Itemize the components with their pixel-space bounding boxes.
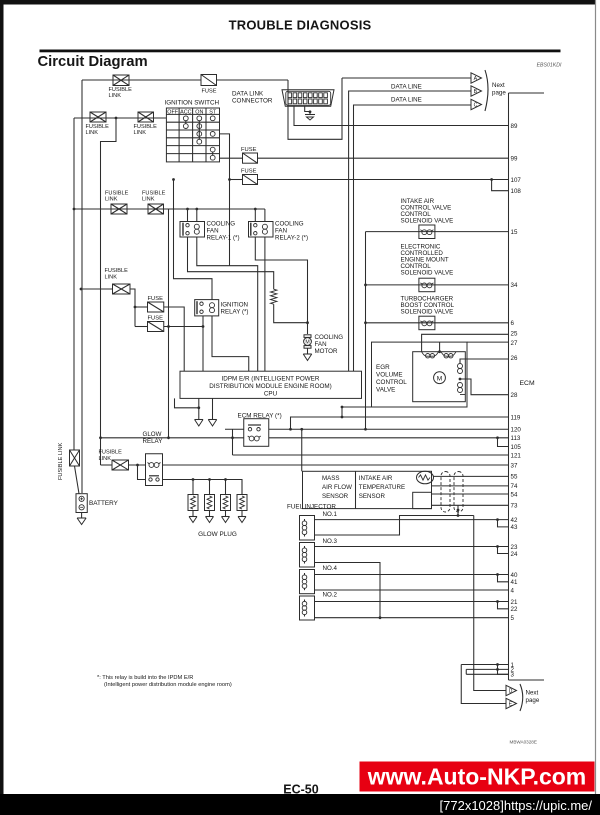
- wire fl8 bus: [101, 464, 113, 466]
- cooling fan relay-2 contact: [251, 223, 257, 236]
- svg-text:page: page: [492, 90, 506, 97]
- wire fl7 diag: [75, 466, 80, 494]
- ECM pin step pairs: [490, 178, 508, 609]
- wire motor to gnd: [307, 349, 309, 355]
- MAF divider: [355, 471, 357, 508]
- svg-text:FUSE: FUSE: [148, 316, 164, 322]
- MAF temp sensor square: [413, 492, 432, 508]
- ignition switch header: [167, 110, 217, 116]
- wire left vert x74: [73, 118, 75, 450]
- fusible link FL7 vertical: [70, 450, 80, 466]
- ignition relay contact: [197, 301, 203, 314]
- svg-text:COOLING: COOLING: [207, 221, 236, 228]
- ignition relay coil: [210, 303, 215, 313]
- svg-text:NO.1: NO.1: [323, 511, 338, 518]
- svg-text:BATTERY: BATTERY: [89, 500, 119, 507]
- fusible link FL6: [113, 284, 131, 294]
- svg-text:FUEL INJECTOR: FUEL INJECTOR: [287, 504, 336, 511]
- svg-text:55: 55: [511, 474, 518, 481]
- junction fl6 fuse4: [134, 306, 137, 309]
- ground glow plug arrows: [189, 517, 246, 523]
- fusible link FL4: [111, 204, 127, 214]
- wire jog x116 to x100: [101, 118, 117, 465]
- wire ecm relay contact line: [225, 428, 509, 430]
- svg-text:28: 28: [511, 392, 518, 399]
- glow relay coil: [148, 463, 161, 468]
- label NO.3: [323, 538, 338, 545]
- label turbo solenoid: [401, 295, 455, 315]
- data line 1: [342, 77, 471, 79]
- fuse F4: [148, 302, 164, 312]
- label FUEL INJECTOR: [287, 504, 336, 511]
- svg-text:LINK: LINK: [142, 197, 155, 203]
- battery box: [76, 494, 87, 513]
- svg-text:SOLENOID VALVE: SOLENOID VALVE: [401, 308, 454, 315]
- svg-text:25: 25: [511, 331, 518, 338]
- svg-text:FUSIBLE: FUSIBLE: [99, 450, 123, 456]
- svg-text:LINK: LINK: [105, 197, 118, 203]
- junction fuse5 v1: [167, 325, 170, 328]
- label GLOW RELAY: [143, 431, 163, 445]
- label FL1: [109, 87, 133, 99]
- svg-text:MASS: MASS: [322, 475, 340, 482]
- svg-text:NO.3: NO.3: [323, 538, 338, 545]
- wire triangle2 feed: [461, 665, 506, 704]
- svg-text:IDPM E/R (INTELLIGENT POWER: IDPM E/R (INTELLIGENT POWER: [222, 376, 320, 383]
- label MASS AIR FLOW SENSOR: [322, 475, 352, 500]
- wire cfr2 contact out: [255, 237, 307, 334]
- junction row2: [115, 117, 118, 120]
- svg-text:6: 6: [511, 320, 515, 327]
- bottom black bar: [0, 795, 600, 815]
- svg-text:34: 34: [511, 282, 518, 289]
- EGR motor box: [413, 352, 466, 402]
- next page arrow C: [471, 99, 482, 109]
- fusible link FL8: [112, 460, 129, 470]
- svg-text:Next: Next: [526, 690, 539, 697]
- wire F3 to ECM107: [258, 179, 509, 181]
- label NO.1: [323, 511, 338, 518]
- wire fuse5 out: [164, 326, 203, 328]
- junction shield bus: [457, 514, 460, 517]
- wire pin26: [460, 359, 509, 363]
- junction glow: [136, 464, 139, 467]
- next page arrow D: [506, 685, 517, 695]
- svg-text:ON: ON: [195, 110, 203, 116]
- wire idpm drop2: [212, 398, 214, 419]
- wire sol3: [366, 322, 509, 324]
- svg-text:VOLUME: VOLUME: [376, 372, 403, 379]
- next page arrow E: [506, 698, 517, 708]
- fuse F5: [148, 322, 164, 332]
- wire F2 to ECM99: [258, 157, 509, 159]
- label engine mount solenoid: [401, 244, 454, 277]
- svg-text:ECM: ECM: [520, 380, 535, 387]
- label FL2: [86, 124, 110, 136]
- svg-text:107: 107: [511, 177, 522, 184]
- junction coil v1: [167, 436, 170, 439]
- cooling fan relay-1 box: [180, 222, 205, 238]
- wire ecm relay coil line: [101, 437, 509, 439]
- svg-text:43: 43: [511, 524, 518, 531]
- EGR outer box: [372, 342, 468, 407]
- label INTAKE AIR TEMP SENSOR: [359, 475, 405, 500]
- svg-text:GLOW: GLOW: [143, 431, 162, 438]
- junction ecmr 301: [300, 428, 303, 431]
- label DATA LINK CONNECTOR: [232, 91, 273, 105]
- next page arrow A: [471, 73, 482, 83]
- svg-text:FUSIBLE LINK: FUSIBLE LINK: [58, 442, 64, 480]
- page left black bar: [0, 0, 3, 815]
- svg-text:FUSE: FUSE: [202, 89, 217, 95]
- svg-text:121: 121: [511, 452, 522, 459]
- svg-text:OFF: OFF: [167, 110, 178, 116]
- svg-text:40: 40: [511, 572, 518, 579]
- wire pin1: [461, 664, 508, 666]
- svg-text:SOLENOID VALVE: SOLENOID VALVE: [401, 218, 454, 225]
- svg-text:99: 99: [511, 156, 518, 163]
- ignition switch contacts: [183, 116, 215, 160]
- ecm relay internals: [248, 425, 261, 441]
- junction sol2: [364, 284, 367, 287]
- junction gp3: [224, 478, 227, 481]
- svg-text:4: 4: [511, 587, 515, 594]
- wire glow coil to ECM37: [163, 464, 509, 466]
- svg-text:RELAY-1 (*): RELAY-1 (*): [207, 235, 240, 242]
- wire pin119: [291, 417, 509, 429]
- svg-text:RELAY (*): RELAY (*): [221, 309, 249, 316]
- svg-text:22: 22: [511, 606, 518, 613]
- ground motor arrow: [303, 354, 312, 361]
- label F2 FUSE: [241, 147, 257, 153]
- label DATA LINE 1: [391, 84, 422, 91]
- junction EGR top: [438, 350, 441, 353]
- fuel injector NO.4: [300, 570, 315, 594]
- label NO.4: [323, 565, 338, 572]
- wire pin27 riser: [439, 342, 441, 352]
- svg-text:CONTROL: CONTROL: [376, 379, 407, 386]
- ground idpm arrow2: [208, 420, 217, 427]
- label IGNITION RELAY: [221, 302, 249, 316]
- wire ign relay contact out: [202, 316, 204, 371]
- wire sol1: [366, 231, 509, 233]
- banner text: [367, 764, 587, 790]
- svg-text:LINK: LINK: [99, 456, 112, 462]
- bottom bar text: [440, 798, 593, 813]
- svg-text:M: M: [437, 376, 443, 383]
- label intake air solenoid: [401, 198, 454, 225]
- glow relay box: [146, 454, 163, 486]
- wire EGR bottom tap: [342, 407, 372, 417]
- wire DLC bypass loop: [288, 78, 342, 139]
- wire pin27 egr top: [467, 341, 509, 343]
- cooling fan motor: [304, 335, 312, 348]
- junction inj pin5: [379, 616, 382, 619]
- wire sol2: [366, 284, 509, 286]
- svg-text:NO.2: NO.2: [323, 592, 338, 599]
- svg-text:5: 5: [511, 615, 515, 622]
- label COOLING FAN MOTOR: [315, 334, 344, 355]
- svg-text:M: M: [305, 340, 309, 346]
- wire cfr1 drops top: [188, 209, 197, 222]
- label FL5: [142, 191, 166, 203]
- glow plugs: [188, 495, 247, 517]
- label COOLING FAN RELAY-2: [275, 221, 308, 242]
- MAF box: [303, 471, 432, 508]
- fusible link FL5: [148, 204, 164, 214]
- svg-text:120: 120: [511, 427, 522, 434]
- junction v2 fuse3: [172, 178, 175, 181]
- svg-text:VALVE: VALVE: [376, 387, 395, 394]
- svg-text:INTAKE AIR: INTAKE AIR: [359, 475, 393, 482]
- svg-text:COOLING: COOLING: [275, 221, 304, 228]
- cooling fan relay-2 box: [249, 222, 274, 238]
- svg-text:www.Auto-NKP.com: www.Auto-NKP.com: [367, 764, 587, 790]
- wire cfr2 coil out: [264, 237, 266, 371]
- wire cfr1 coil out: [197, 237, 258, 371]
- junction coil x232: [231, 436, 234, 439]
- fusible link FL2: [90, 112, 106, 122]
- bracket bottom: [520, 684, 523, 711]
- wire inj4 top to 40: [315, 574, 509, 576]
- wire ign row3 out: [220, 134, 230, 266]
- cooling fan relay-1 contact: [183, 223, 189, 236]
- wire fl6 out: [130, 289, 135, 327]
- MAF hot wire element: [417, 471, 434, 484]
- junction DLC ground: [309, 110, 312, 113]
- svg-text:LINK: LINK: [134, 130, 147, 136]
- wire battery gnd: [81, 513, 83, 519]
- svg-text:TROUBLE DIAGNOSIS: TROUBLE DIAGNOSIS: [229, 18, 372, 33]
- svg-text:21: 21: [511, 599, 518, 606]
- wire fl6 bus: [81, 288, 113, 290]
- label ECM RELAY: [238, 413, 282, 420]
- fuel injector NO.1: [300, 516, 315, 541]
- EGR coil top2: [441, 352, 456, 358]
- resistor fan: [271, 289, 277, 304]
- svg-text:105: 105: [511, 444, 522, 451]
- label IDPM text: [209, 376, 331, 398]
- junction cfr1 contact: [186, 208, 189, 211]
- svg-text:42: 42: [511, 517, 518, 524]
- svg-text:EGR: EGR: [376, 364, 390, 371]
- svg-text:CPU: CPU: [264, 391, 278, 398]
- wire ecm relay left L: [232, 429, 234, 455]
- ignition relay box: [195, 300, 219, 316]
- ground DLC earth: [305, 115, 315, 121]
- junction idpm drop1: [197, 406, 200, 409]
- svg-text:Next: Next: [492, 82, 505, 89]
- svg-text:SENSOR: SENSOR: [359, 493, 386, 500]
- ground battery arrow: [77, 518, 86, 525]
- svg-text:C: C: [474, 103, 478, 109]
- svg-text:NO.4: NO.4: [323, 565, 338, 572]
- wire pin73: [432, 504, 509, 506]
- svg-text:27: 27: [511, 340, 518, 347]
- junction sol3: [364, 321, 367, 324]
- footnote line2: [104, 682, 232, 688]
- data line 3: [354, 105, 471, 371]
- wire cfr1 contact out: [188, 237, 274, 289]
- wire fuse4 out: [164, 307, 184, 371]
- label FL6: [105, 268, 129, 281]
- ECM bottom edge: [509, 679, 545, 681]
- wire sol bus x365: [365, 232, 367, 430]
- svg-text:89: 89: [511, 123, 518, 130]
- svg-text:Circuit Diagram: Circuit Diagram: [38, 54, 148, 70]
- wire idpm drop1: [198, 398, 200, 419]
- wire pin2 drop: [465, 669, 467, 674]
- wire pin74: [432, 485, 509, 487]
- junction ecmr 290: [289, 428, 292, 431]
- svg-text:DATA LINE: DATA LINE: [391, 84, 422, 91]
- wire inj supply down: [474, 516, 506, 691]
- data line 2: [349, 91, 471, 371]
- fuel injector NO.2: [300, 596, 315, 620]
- svg-text:FUSE: FUSE: [241, 169, 257, 175]
- wire pin54: [432, 493, 509, 495]
- fuse F3: [243, 175, 258, 185]
- glow relay contact: [149, 476, 159, 481]
- svg-text:A: A: [474, 76, 478, 82]
- doc code EBS01KDI: [537, 63, 562, 69]
- wire pin55: [434, 475, 509, 477]
- wire bus121: [233, 454, 509, 456]
- label EGR: [376, 364, 407, 394]
- fusible link FL1: [113, 75, 129, 86]
- wire inj1 top to 42: [315, 519, 509, 521]
- svg-text:DATA LINK: DATA LINK: [232, 91, 264, 98]
- wire v1 x168.5: [168, 209, 170, 438]
- wire fl8 out: [129, 464, 146, 466]
- fusible link FL3: [138, 112, 154, 122]
- svg-text:41: 41: [511, 579, 518, 586]
- junction cfr1 coil: [195, 208, 198, 211]
- battery symbol: [79, 496, 84, 510]
- svg-text:[772x1028]https://upic.me/: [772x1028]https://upic.me/: [440, 798, 593, 813]
- junction ign fuse3: [228, 178, 231, 181]
- svg-text:23: 23: [511, 544, 518, 551]
- wire pin25: [422, 334, 509, 351]
- label F1 FUSE: [202, 89, 217, 95]
- svg-text:E: E: [509, 702, 513, 708]
- svg-text:73: 73: [511, 503, 518, 510]
- wire v2 x173.5: [174, 180, 213, 300]
- svg-text:LINK: LINK: [86, 130, 99, 136]
- page right grey border: [595, 0, 597, 815]
- svg-text:ST: ST: [209, 110, 217, 116]
- footnote line1: [97, 675, 193, 681]
- label FUSIBLE LINK vertical: [58, 442, 64, 480]
- fuel injector NO.3: [300, 543, 315, 568]
- ecm relay box: [244, 419, 269, 447]
- junction ecmr 365: [364, 428, 367, 431]
- red banner: [360, 762, 594, 791]
- svg-text:24: 24: [511, 551, 518, 558]
- svg-text:108: 108: [511, 188, 522, 195]
- wire row2 y118: [74, 117, 166, 119]
- svg-text:D: D: [509, 689, 513, 695]
- label BATTERY: [89, 500, 119, 507]
- IDPM E/R box: [180, 371, 362, 398]
- data link connector: [282, 90, 334, 107]
- ECM pin labels: [511, 123, 522, 679]
- wire fuse4 feed: [135, 306, 148, 308]
- svg-text:RELAY: RELAY: [143, 438, 163, 445]
- wire fuse5 feed: [135, 326, 148, 328]
- EGR motor M: [434, 372, 446, 384]
- ignition switch table: [166, 108, 219, 162]
- label F4 FUSE: [148, 296, 164, 302]
- heading Circuit Diagram: [38, 54, 148, 70]
- svg-text:IGNITION SWITCH: IGNITION SWITCH: [165, 100, 220, 107]
- junction shield: [457, 509, 460, 512]
- label GLOW PLUG: [198, 531, 237, 538]
- svg-text:TEMPERATURE: TEMPERATURE: [359, 484, 405, 491]
- label COOLING FAN RELAY-1: [207, 221, 240, 242]
- svg-text:113: 113: [511, 435, 521, 442]
- svg-text:119: 119: [511, 414, 521, 421]
- svg-text:page: page: [526, 697, 540, 704]
- label Next page bottom: [526, 690, 540, 705]
- solenoid engine mount: [419, 278, 435, 292]
- solenoid turbo boost: [419, 316, 435, 330]
- wire fuse3 feed: [230, 179, 243, 181]
- svg-text:DISTRIBUTION MODULE ENGINE ROO: DISTRIBUTION MODULE ENGINE ROOM): [209, 383, 331, 390]
- label F5 FUSE: [148, 316, 164, 322]
- wire inj3 bottom: [315, 563, 381, 618]
- wire idpm stub: [175, 398, 199, 407]
- svg-text:EBS01KDI: EBS01KDI: [537, 63, 562, 69]
- EGR coil top1: [422, 352, 439, 358]
- svg-text:IGNITION: IGNITION: [221, 302, 249, 309]
- junction motor node: [306, 321, 309, 324]
- svg-text:GLOW PLUG: GLOW PLUG: [198, 531, 237, 538]
- ECM left edge: [508, 93, 510, 680]
- wire F1 to DLC: [217, 79, 289, 81]
- wire shield down: [457, 505, 459, 515]
- svg-text:FAN: FAN: [315, 341, 327, 348]
- wire glow plug drops: [193, 480, 242, 495]
- solenoid intake air: [419, 225, 435, 239]
- label IGNITION SWITCH: [165, 100, 220, 107]
- label FL4: [105, 191, 129, 203]
- junction gp1: [192, 478, 195, 481]
- wire ign relay coil out: [212, 316, 249, 371]
- svg-text:74: 74: [511, 483, 518, 490]
- junction v100 coil: [99, 436, 102, 439]
- svg-text:DATA LINE: DATA LINE: [391, 97, 422, 104]
- wire DLC ground stub: [305, 106, 310, 114]
- label F3 FUSE: [241, 169, 257, 175]
- section rule: [40, 50, 560, 52]
- junction egr tap bottom: [341, 416, 344, 419]
- EGR coil stack: [458, 360, 466, 395]
- svg-text:MOTOR: MOTOR: [315, 348, 338, 355]
- label FL3: [134, 124, 158, 136]
- label DATA LINE 2: [391, 97, 422, 104]
- wire resistor to motor node: [274, 304, 308, 323]
- title TROUBLE DIAGNOSIS: [229, 18, 372, 33]
- junction egr tap top: [341, 406, 344, 409]
- diagram code: [510, 740, 537, 745]
- fuse F1: [201, 75, 217, 86]
- svg-text:26: 26: [511, 355, 518, 362]
- label EC-50: [283, 783, 318, 797]
- label Next page top: [492, 82, 506, 97]
- svg-text:FUSIBLE: FUSIBLE: [105, 268, 129, 274]
- wire bus y209: [74, 208, 265, 210]
